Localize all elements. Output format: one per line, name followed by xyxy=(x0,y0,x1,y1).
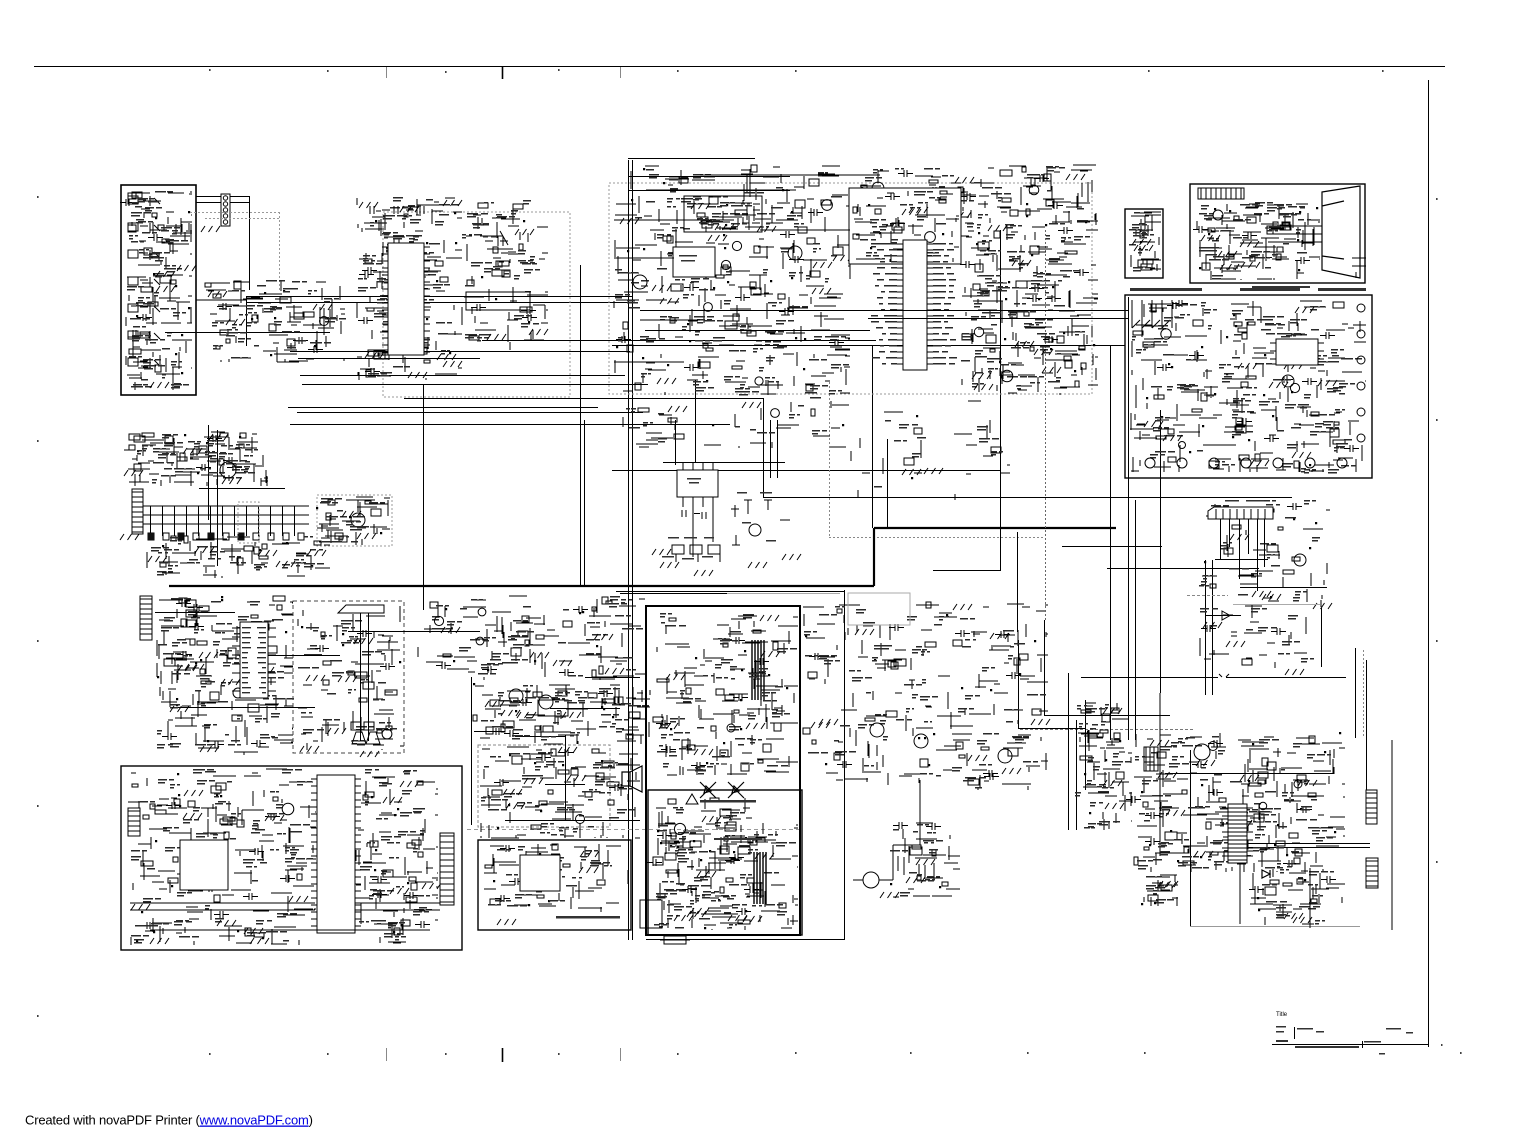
clusterN2: ground xyxy=(503,789,522,795)
clusterE5: ground xyxy=(924,468,943,474)
clusterT2: ground xyxy=(1166,810,1185,816)
wire xyxy=(1165,773,1334,775)
gray dashed wire xyxy=(1187,595,1228,597)
resistor stack xyxy=(186,600,196,627)
wires at top of tuner section xyxy=(628,159,790,191)
clusterJ3: ground xyxy=(357,533,376,539)
stepped feed wire xyxy=(404,398,764,497)
clusterD: junction dots xyxy=(481,220,530,323)
clusterT2: ground xyxy=(1298,780,1317,786)
clusterO2: ground xyxy=(690,908,709,914)
clusterH: ground xyxy=(1238,363,1257,369)
title block small text xyxy=(1276,1026,1286,1028)
tuning section inner verticals xyxy=(361,613,369,741)
wire xyxy=(298,358,480,360)
clusterQ1: reference designator labels xyxy=(131,769,313,944)
clusterE1: junction dots xyxy=(616,168,806,382)
clusterN2: ground xyxy=(524,778,543,784)
clusterE1: transistor Q4 xyxy=(755,377,763,385)
clusterL: ground xyxy=(1230,534,1249,540)
clusterT2: transistor Q3 xyxy=(1294,780,1302,788)
clusterT1: junction dots xyxy=(1084,731,1121,814)
wire xyxy=(1018,728,1085,730)
AV input jack J1 xyxy=(128,196,160,206)
vertical wire at audio section left xyxy=(471,677,473,825)
IC U501 box xyxy=(520,855,560,891)
clusterE2: transistor Q3 xyxy=(1029,185,1039,195)
clusterE4: transistor Q1 xyxy=(771,409,780,418)
vertical wire xyxy=(777,420,779,478)
clusterG: ground xyxy=(1240,241,1259,247)
clusterM1: ground xyxy=(178,665,197,671)
clusterE6: wires and small components xyxy=(853,191,959,262)
IC U201 video processor xyxy=(388,243,424,355)
clusterL: wires and small components xyxy=(1200,503,1330,668)
clusterM1: junction dots xyxy=(157,596,287,742)
clusterQ2: wires and small components xyxy=(356,777,438,945)
clusterH: transistor Q1 xyxy=(1282,375,1294,387)
gray return wire xyxy=(1190,926,1360,928)
clusterF: junction dots xyxy=(1139,241,1142,250)
clusterQ2: ground xyxy=(422,883,441,889)
discrete parts right of U601 xyxy=(731,500,790,545)
wire xyxy=(290,351,630,353)
section: IF test box border xyxy=(1125,209,1163,278)
clusterE1: ground xyxy=(708,235,727,241)
clusterP: reference designator labels xyxy=(890,824,943,897)
clusterM3: ground xyxy=(605,668,624,674)
clusterS: wires and small components xyxy=(656,798,750,928)
clusterM3: transistor Q2 xyxy=(476,637,484,645)
clusterO2: reference designator labels xyxy=(654,815,796,929)
warning triangle xyxy=(686,794,698,804)
clusterO2: wires and small components xyxy=(647,816,798,930)
clusterE3: ground xyxy=(1034,349,1053,355)
IC U801 regulator xyxy=(1276,339,1318,365)
clusterO3: ground xyxy=(811,722,830,728)
clusterO1: ground xyxy=(659,723,678,729)
vertical wire xyxy=(1000,230,1002,571)
wire xyxy=(302,384,648,386)
clusterC: ground xyxy=(443,361,462,367)
clusterL: ground xyxy=(1226,641,1245,647)
clusterQ1: ground xyxy=(217,920,236,926)
wire xyxy=(1062,546,1162,548)
thick bus riser xyxy=(873,528,875,586)
wire xyxy=(1215,559,1268,561)
clusterS: ground xyxy=(674,915,693,921)
title block vertical tick xyxy=(1362,1041,1364,1048)
clusterD: wires and small components xyxy=(462,203,548,350)
clusterE1: wires and small components xyxy=(614,165,850,395)
vertical wire xyxy=(1017,532,1019,632)
clusterE2: ground xyxy=(855,221,874,227)
clusterD: ground xyxy=(529,329,548,335)
AV input jack J7 xyxy=(128,358,160,368)
clusterE7: reference designator labels xyxy=(697,202,752,228)
clusterB: wires and small components xyxy=(205,281,345,362)
clusterE3: transistor Q2 xyxy=(1001,370,1013,382)
clusterH: ground xyxy=(1269,382,1288,388)
clusterM1: ground xyxy=(170,706,189,712)
CN601 pin drop wires xyxy=(1221,519,1265,591)
clusterH: ground xyxy=(1284,363,1303,369)
clusterJ1: ground xyxy=(209,434,228,440)
clusterO3: ground xyxy=(968,755,987,761)
clusterF: ground xyxy=(1134,245,1153,251)
clusterO2: transistor Q1 xyxy=(674,823,685,834)
ground xyxy=(880,892,899,898)
clusterT1: ground xyxy=(1103,780,1122,786)
CRT board connector CN901 xyxy=(1198,188,1244,199)
vertical wire xyxy=(1160,410,1162,693)
clusterO3: ground xyxy=(819,719,838,725)
clusterL: ground xyxy=(1252,591,1271,597)
clusterA: junction dots xyxy=(136,211,190,374)
dashed section outline box xyxy=(317,495,392,546)
clusterA: wires and small components xyxy=(120,192,192,390)
clusterE2: junction dots xyxy=(861,187,1087,234)
clusterO1: transistor Q1 xyxy=(727,724,735,732)
vertical wire xyxy=(584,420,586,587)
clusterR: junction dots xyxy=(493,853,550,906)
transistor Q101 xyxy=(788,246,802,260)
clusterT3: junction dots xyxy=(1257,879,1306,911)
clusterQ1: ground xyxy=(289,896,308,902)
clusterM2: reference designator labels xyxy=(298,620,397,746)
clusterJ3: wires and small components xyxy=(317,497,390,545)
clusterT2: transistor Q2 xyxy=(1259,802,1266,809)
vertical wire xyxy=(246,296,248,346)
clusterE6: transistor Q1 xyxy=(925,232,936,243)
clusterJ2: ground xyxy=(195,547,214,553)
U601 pins top and bottom xyxy=(683,462,713,557)
clusterH: transistor Q4 xyxy=(1179,442,1186,449)
bottom ruler tick (black) xyxy=(502,1048,504,1062)
clusterM1: wires and small components xyxy=(157,596,293,755)
clusterM3: junction dots xyxy=(445,608,598,671)
clusterQ1: ground xyxy=(183,813,202,819)
component row under bus (electrolytic caps) xyxy=(148,533,304,540)
clusterH: transistor Q3 xyxy=(1161,329,1171,339)
clusterT4: junction dots xyxy=(1141,902,1156,905)
clusterH: ground xyxy=(1292,452,1311,458)
clusterE1: transistor Q1 xyxy=(704,303,713,312)
title block copyright line xyxy=(1295,1046,1359,1048)
clusterC: reference designator labels xyxy=(358,197,459,378)
transistor Q301 xyxy=(351,513,365,527)
connector CN401 xyxy=(128,808,140,836)
clusterT2: ground xyxy=(1158,772,1177,778)
gray dotted vertical xyxy=(1363,650,1365,738)
clusterN1: wires and small components xyxy=(473,685,650,744)
long vertical wire xyxy=(632,160,634,940)
clusterT4: reference designator labels xyxy=(1146,876,1174,904)
vertical wire xyxy=(1321,608,1323,667)
filled cap bodies xyxy=(148,533,244,540)
clusterM1: transistor Q1 xyxy=(233,688,243,698)
clusterQ1: transistor Q1 xyxy=(282,803,294,815)
clusterT2: ground xyxy=(1196,760,1215,766)
clusterE2: ground xyxy=(1066,174,1085,180)
clusterH: ground xyxy=(1163,435,1182,441)
clusterC: ground xyxy=(359,202,378,208)
connector CN201 xyxy=(140,596,152,640)
wire xyxy=(933,570,1000,572)
clusterE6: ground xyxy=(909,207,928,213)
clusterE1: transistor Q2 xyxy=(822,200,833,211)
clusterN2: wires and small components xyxy=(480,747,640,838)
small boxes row in tuning section xyxy=(351,722,374,730)
clusterQ2: junction dots xyxy=(371,796,409,933)
wires across sub-board xyxy=(130,903,440,930)
clusterE1: ground xyxy=(757,226,776,232)
clusterE3: junction dots xyxy=(976,243,1095,372)
vertical wire xyxy=(1018,640,1020,728)
vertical wire xyxy=(1076,720,1078,830)
capacitor labels xyxy=(668,537,679,539)
clusterT1: ground xyxy=(1103,708,1122,714)
connector CN601 strip xyxy=(1208,507,1273,519)
vertical wire xyxy=(208,425,210,520)
clusterJ1: reference designator labels xyxy=(137,434,258,484)
clusterJ2: junction dots xyxy=(162,542,313,567)
ground xyxy=(222,478,241,484)
clusterE7: ground xyxy=(691,203,710,209)
bottom wire under deflection box xyxy=(646,939,845,941)
right sheet border line xyxy=(1428,80,1430,1047)
wire xyxy=(199,488,285,490)
clusterO2: ground xyxy=(755,853,774,859)
clusterS: ground xyxy=(728,915,747,921)
clusterL: ground xyxy=(1313,603,1332,609)
clusterO1: ground xyxy=(761,651,780,657)
clusterC: ground xyxy=(365,352,384,358)
clusterE4: ground xyxy=(742,402,761,408)
clusterO3: wires and small components xyxy=(803,602,1048,790)
section: CRT board border xyxy=(1190,184,1365,283)
clusterG: reference designator labels xyxy=(1199,202,1311,280)
output connector pads column xyxy=(1357,304,1365,312)
clusterE5: wires and small components xyxy=(851,401,1010,500)
ground xyxy=(201,226,220,232)
stray dot xyxy=(1441,1044,1443,1046)
clusterJ2: reference designator labels xyxy=(151,536,324,576)
clusterN1: reference designator labels xyxy=(481,685,649,741)
clusterE6: reference designator labels xyxy=(860,191,946,260)
ground xyxy=(497,919,516,925)
clusterT2: ground xyxy=(1194,851,1213,857)
vertical wire xyxy=(423,384,425,610)
transistor Q702 xyxy=(914,734,928,748)
clusterM1: reference designator labels xyxy=(157,598,294,749)
clusterM1: ground xyxy=(185,664,204,670)
section: regulator sub-board border xyxy=(478,840,631,930)
clusterE1: reference designator labels xyxy=(615,169,849,396)
clusterT4: ground xyxy=(1159,881,1178,887)
gray wire xyxy=(727,593,840,595)
clusterQ1: ground xyxy=(131,904,150,910)
dotted section outline around tuner/IF xyxy=(609,183,1092,394)
clusterM3: ground xyxy=(530,652,549,658)
bus wires xyxy=(143,506,309,524)
wire xyxy=(300,375,625,377)
section: deflection board border xyxy=(646,606,800,935)
clusterH: junction dots xyxy=(1146,314,1311,466)
degauss coil connector xyxy=(853,780,920,880)
clusterS: reference designator labels xyxy=(656,807,747,929)
clusterT2: ground xyxy=(1233,820,1252,826)
clusterO1: ground xyxy=(746,723,765,729)
title block bottom rule xyxy=(1272,1044,1428,1046)
mains fuse and filter row xyxy=(1132,300,1172,328)
clusterO1: ground xyxy=(666,674,685,680)
ground marks in L section xyxy=(1203,622,1222,628)
ground marks near U201 xyxy=(408,372,427,378)
ground marks xyxy=(200,746,219,752)
clusterM1: ground xyxy=(199,652,218,658)
bottom ruler tick (gray) xyxy=(386,1048,388,1061)
diode D901 xyxy=(1262,870,1270,878)
bridge rectifier diodes D601-D604 xyxy=(700,782,744,798)
gray dotted bus wires xyxy=(190,212,280,292)
clusterP: ground xyxy=(916,859,935,865)
clusterN2: ground xyxy=(567,775,586,781)
clusterE3: ground xyxy=(1012,260,1031,266)
wire with break symbol xyxy=(1081,674,1346,678)
degauss posistor circle xyxy=(863,872,879,888)
bus wire xyxy=(290,424,730,426)
speaker SP1 xyxy=(622,766,642,792)
clusterN2: junction dots xyxy=(497,754,603,829)
vertical wire xyxy=(1085,700,1087,790)
clusterN2: transistor Q1 xyxy=(576,815,585,824)
title block divider xyxy=(1294,1027,1296,1039)
clusterO1: ground xyxy=(760,615,779,621)
clusterE5: reference designator labels xyxy=(874,420,1003,488)
U001 pin wires xyxy=(232,628,276,691)
IC U101 SAW filter box xyxy=(673,247,715,277)
clusterT3: ground xyxy=(1284,913,1303,919)
clusterT1: reference designator labels xyxy=(1075,704,1131,829)
clusterA: reference designator labels xyxy=(127,191,189,389)
top ruler tick (gray) xyxy=(620,67,622,78)
clusterT4: wires and small components xyxy=(1144,875,1178,906)
transistor Q701 xyxy=(870,723,884,737)
clusterQ2: reference designator labels xyxy=(359,769,432,941)
resistor network box xyxy=(466,292,530,310)
clusterO1: reference designator labels xyxy=(657,613,797,775)
clusterF: wires and small components xyxy=(1131,212,1161,271)
clusterQ2: ground xyxy=(383,797,402,803)
CN601 label xyxy=(1225,500,1239,502)
wire xyxy=(297,412,643,414)
dashed outline around tuning section xyxy=(293,601,404,753)
CRT neck lines xyxy=(1268,222,1322,250)
clusterM2: ground xyxy=(354,638,373,644)
transistor Q601a xyxy=(749,524,761,536)
transistor Q302 xyxy=(220,462,236,478)
clusterG: ground xyxy=(1218,251,1237,257)
clusterT3: reference designator labels xyxy=(1262,867,1334,925)
wire xyxy=(1044,715,1170,717)
clusterP: junction dots xyxy=(890,883,941,888)
connector CN402 xyxy=(440,833,454,905)
connector CN902 xyxy=(1366,858,1378,888)
svg-text:Title: Title xyxy=(1276,1012,1288,1018)
clusterT2: reference designator labels xyxy=(1135,736,1333,874)
vertical wire xyxy=(872,345,874,528)
trimmer capacitor xyxy=(485,231,508,246)
vertical wire xyxy=(887,439,889,528)
clusterB: ground xyxy=(208,291,227,297)
ground below AV box xyxy=(150,382,169,388)
bus wire xyxy=(246,302,632,304)
clusterE1: transistor Q5 xyxy=(721,260,730,269)
clusterT2: transistor Q1 xyxy=(1209,742,1218,751)
clusterE1: ground xyxy=(660,298,679,304)
clusterO1: wires and small components xyxy=(653,616,798,775)
clusterR: ground xyxy=(580,851,599,857)
AV input jack J6 xyxy=(128,331,160,341)
clusterE6: junction dots xyxy=(868,204,944,249)
long wire xyxy=(763,497,1292,499)
mains connector xyxy=(640,900,662,928)
clusterN1: ground xyxy=(517,712,536,718)
capacitor row above U201 xyxy=(370,206,424,214)
dashed outline xyxy=(478,745,610,827)
clusterE3: ground xyxy=(974,384,993,390)
clusterT2: junction dots xyxy=(1141,732,1341,862)
clusterM2: ground xyxy=(327,728,346,734)
clusterB: ground xyxy=(313,304,332,310)
clusterE2: transistor Q2 xyxy=(904,228,912,236)
clusterM3: ground xyxy=(553,660,572,666)
clusterS: ground xyxy=(702,816,721,822)
ground marks xyxy=(120,534,139,540)
resistor row above audio ICs xyxy=(533,691,620,709)
clusterM2: ground xyxy=(306,675,325,681)
clusterE6: ground xyxy=(902,209,921,215)
clusterE1: ground xyxy=(620,218,639,224)
clusterB: junction dots xyxy=(251,290,316,356)
crystal X001 xyxy=(226,648,238,658)
clusterH: transistor Q2 xyxy=(1290,383,1299,392)
clusterJ1: ground xyxy=(124,470,143,476)
connector CN102 with pin circles xyxy=(221,194,230,226)
clusterB: reference designator labels xyxy=(212,280,346,359)
section: power supply border xyxy=(1125,295,1372,478)
gray outline xyxy=(848,593,910,625)
clusterE2: reference designator labels xyxy=(853,166,1090,242)
clusterE2: transistor Q1 xyxy=(872,182,884,194)
transistor Q601 xyxy=(509,689,523,703)
clusterP: ground xyxy=(906,877,925,883)
vertical wire xyxy=(1355,648,1357,738)
clusterB: transistor Q1 xyxy=(320,317,329,326)
AV input jack J3 xyxy=(128,250,160,260)
CRT socket spark gaps xyxy=(1352,258,1366,278)
clusterO2: ground xyxy=(687,911,706,917)
clusterM3: wires and small components xyxy=(418,596,645,680)
clusterN2: reference designator labels xyxy=(481,752,635,836)
clusterQ1: ground xyxy=(184,790,203,796)
vertical wire xyxy=(1366,660,1368,790)
clusterC: junction dots xyxy=(375,212,457,354)
clusterJ2: ground xyxy=(307,550,326,556)
transistor Q602 xyxy=(539,695,553,709)
AV input jack J5 xyxy=(128,304,160,314)
